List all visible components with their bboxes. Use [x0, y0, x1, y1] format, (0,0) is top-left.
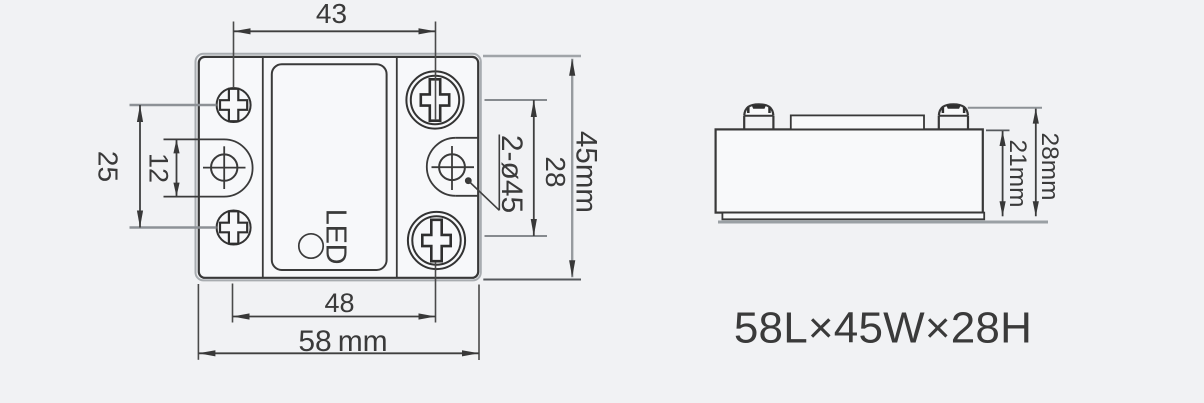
- right mounting hole crosshair: [432, 146, 475, 190]
- svg-text:21mm: 21mm: [1004, 139, 1031, 207]
- left mounting slot: [164, 139, 253, 196]
- side view: base plate: [722, 213, 984, 220]
- svg-text:43: 43: [316, 0, 347, 29]
- screw top-right: [406, 71, 463, 128]
- svg-text:12: 12: [144, 153, 174, 183]
- dimension 58 mm bottom: [198, 284, 479, 360]
- svg-text:28: 28: [540, 156, 571, 187]
- top view: SSR body outline: [199, 57, 478, 278]
- side view: top ridge: [791, 115, 924, 129]
- wire: right terminal divider: [396, 58, 398, 278]
- side view: SSR body: [716, 129, 983, 212]
- dimension 28 right: [485, 100, 572, 236]
- dimension 25 left: [93, 105, 217, 228]
- dimension 48 bottom: [233, 262, 436, 323]
- top view: SSR body gray outer contour: [196, 54, 481, 281]
- svg-text:45mm: 45mm: [570, 131, 603, 213]
- svg-text:58 mm: 58 mm: [298, 325, 387, 358]
- svg-text:2-ø45: 2-ø45: [495, 135, 528, 213]
- screw bottom-left: [217, 211, 251, 245]
- label 2-ø45 with leader: [465, 135, 528, 214]
- dimension 21mm side: [986, 130, 1031, 216]
- dimension 45mm right: [483, 56, 603, 280]
- wire: left terminal divider: [262, 58, 264, 278]
- left mounting hole crosshair: [203, 146, 246, 189]
- svg-text:28mm: 28mm: [1036, 132, 1063, 200]
- svg-text:48: 48: [324, 288, 354, 318]
- side view: right screw: [939, 104, 968, 129]
- top view: center cover: [272, 64, 387, 270]
- screw bottom-right: [408, 212, 465, 269]
- svg-text:25: 25: [93, 151, 124, 182]
- screw top-left: [217, 88, 251, 122]
- svg-text:58L×45W×28H: 58L×45W×28H: [734, 304, 1032, 353]
- dimension 28mm side: [968, 108, 1063, 217]
- side view: base gray underline: [718, 221, 1048, 224]
- side view: left screw: [744, 104, 773, 129]
- LED indicator circle: [299, 234, 323, 258]
- svg-text:LED: LED: [320, 209, 352, 265]
- dimension 43 top: [234, 0, 436, 120]
- right mounting slot: [427, 138, 478, 196]
- dimension 12 left: [144, 139, 180, 196]
